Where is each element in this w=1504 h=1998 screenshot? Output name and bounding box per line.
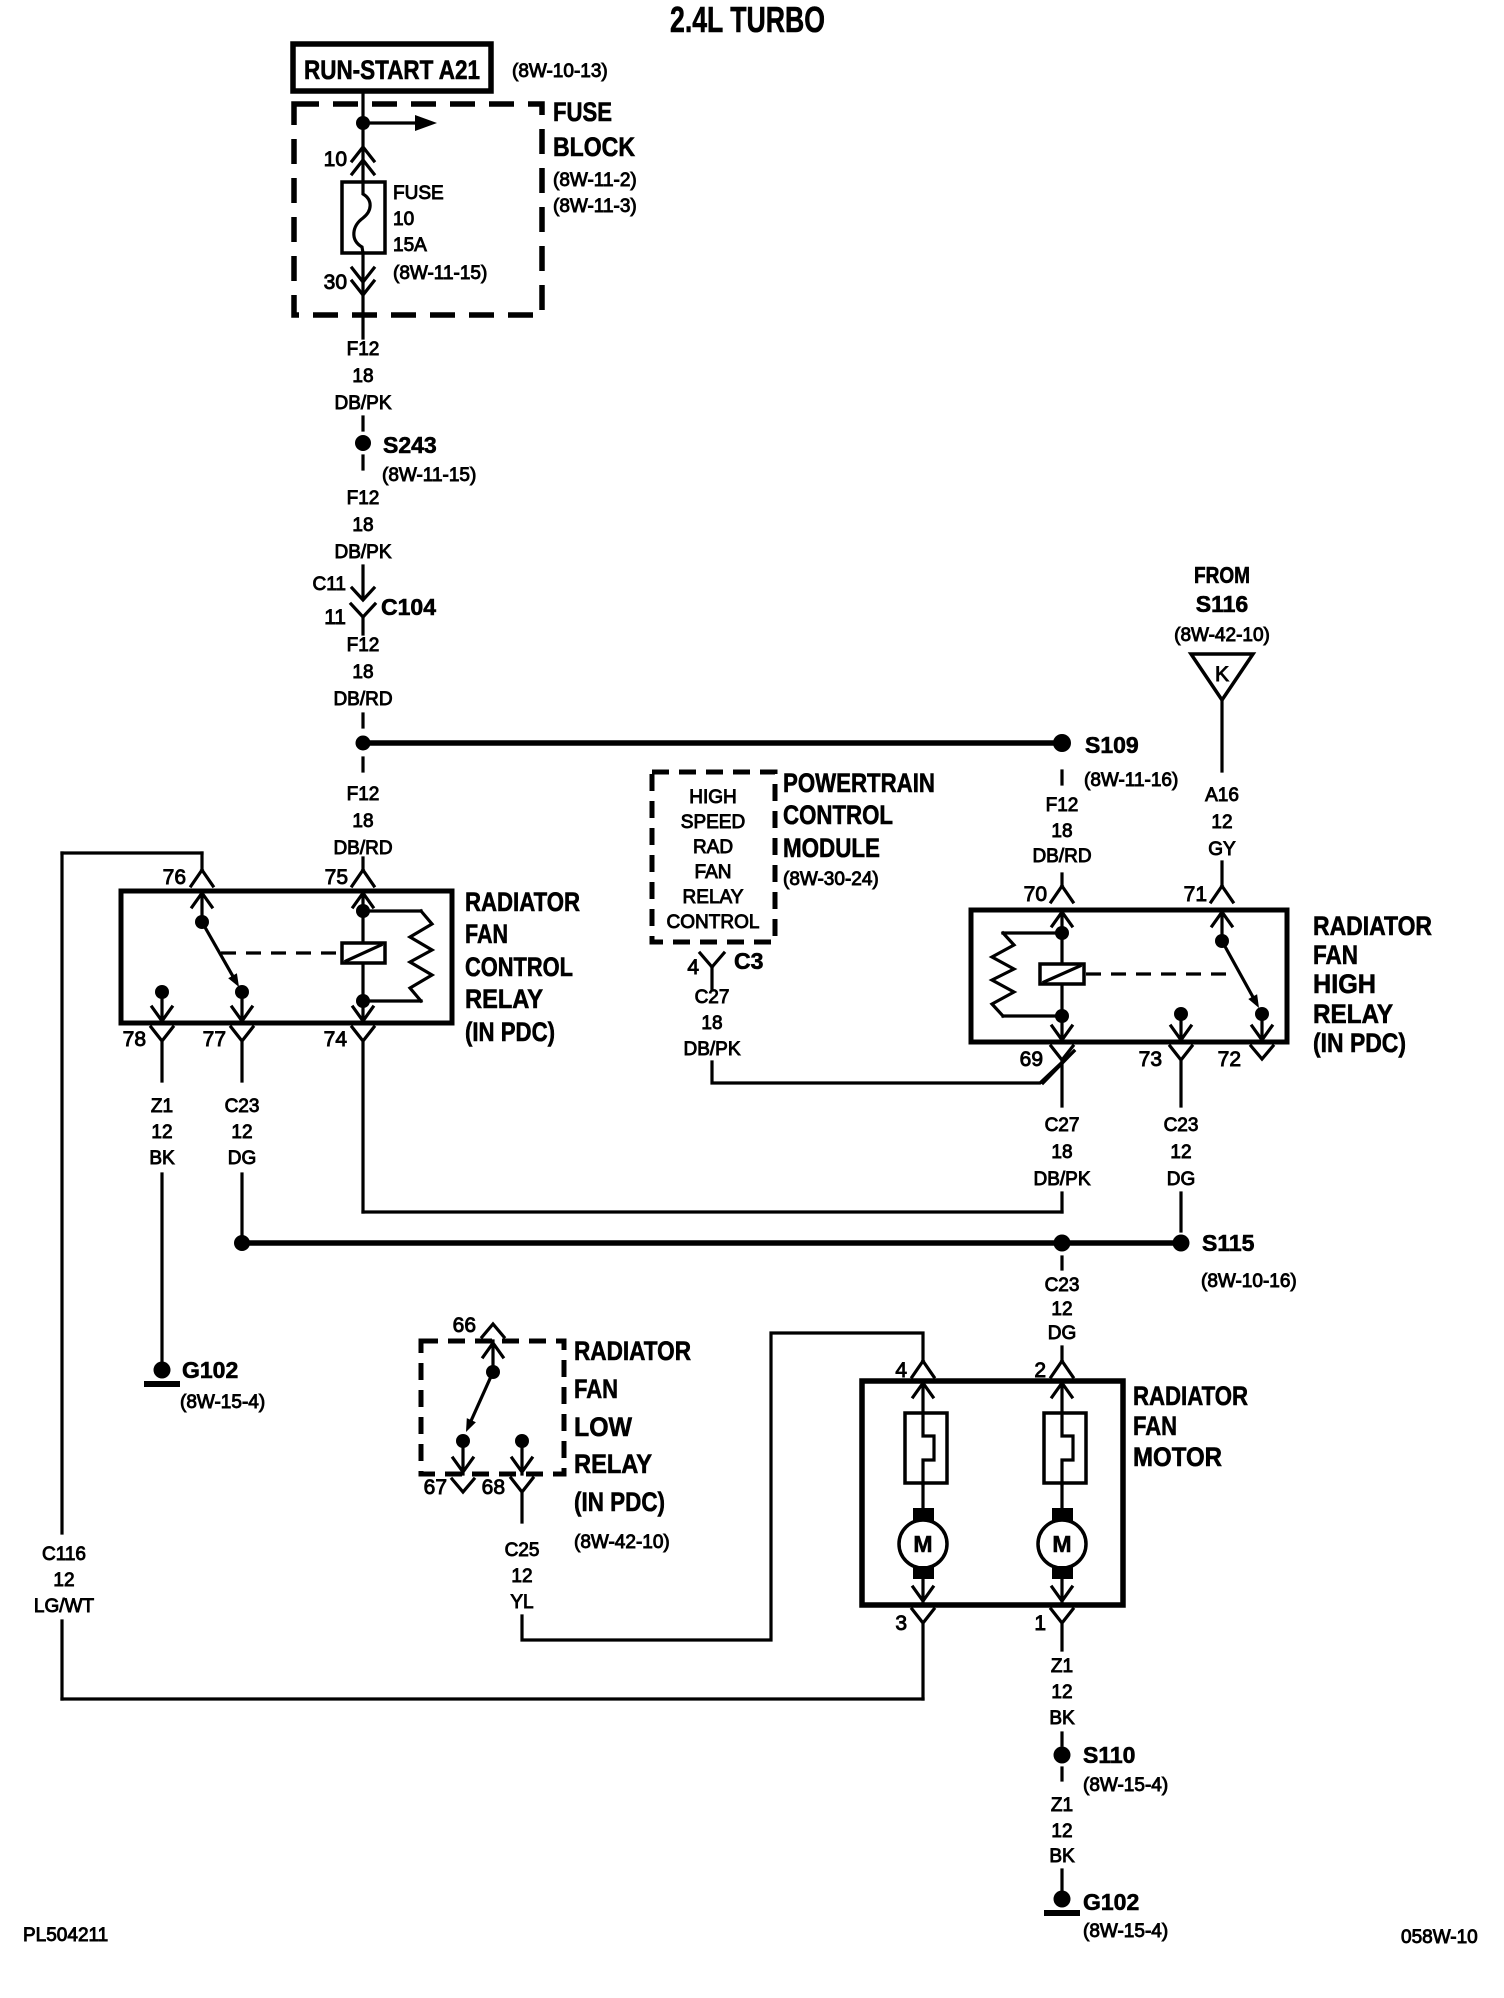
pin 78 connector below box — [151, 1027, 173, 1081]
svg-text:RADIATOR: RADIATOR — [574, 1336, 691, 1366]
bus wire to S109 — [363, 740, 1062, 746]
svg-text:RELAY: RELAY — [465, 984, 543, 1014]
relay switch arm — [202, 922, 233, 976]
svg-text:C11: C11 — [313, 574, 346, 595]
svg-text:78: 78 — [123, 1028, 146, 1051]
motor 1 (left) — [921, 1483, 924, 1508]
svg-text:12: 12 — [53, 1570, 74, 1591]
pin 66 terminal inside — [483, 1341, 503, 1372]
svg-text:(8W-15-4): (8W-15-4) — [180, 1392, 265, 1413]
svg-text:G102: G102 — [1083, 1889, 1139, 1915]
svg-text:12: 12 — [1051, 1299, 1072, 1320]
svg-text:MODULE: MODULE — [783, 833, 880, 863]
svg-text:(8W-11-16): (8W-11-16) — [1084, 770, 1178, 791]
wire PCM C27 to pin 69 — [712, 1051, 1074, 1083]
svg-text:DB/RD: DB/RD — [1032, 846, 1091, 867]
ground G102 right — [1054, 1891, 1071, 1908]
svg-text:RELAY: RELAY — [1313, 999, 1393, 1029]
svg-text:12: 12 — [1051, 1821, 1072, 1842]
svg-text:DB/RD: DB/RD — [333, 838, 392, 859]
radiator fan high relay box — [971, 910, 1287, 1042]
svg-text:(8W-11-3): (8W-11-3) — [553, 196, 637, 217]
svg-text:DG: DG — [1167, 1169, 1196, 1190]
svg-text:DB/RD: DB/RD — [333, 689, 392, 710]
svg-text:DG: DG — [1048, 1323, 1077, 1344]
svg-text:1: 1 — [1034, 1612, 1046, 1635]
svg-text:RELAY: RELAY — [683, 887, 744, 908]
pin 77 connector below box — [231, 1027, 253, 1081]
svg-text:10: 10 — [393, 209, 414, 230]
wire K to pin 71 — [1220, 700, 1223, 771]
svg-text:FUSE: FUSE — [553, 97, 612, 127]
svg-text:S109: S109 — [1085, 732, 1139, 758]
svg-text:BK: BK — [149, 1148, 175, 1169]
pin 3 connector below box — [912, 1609, 934, 1699]
relay switch arm — [1222, 941, 1253, 997]
pin 74 connector below box — [352, 1027, 374, 1212]
svg-text:12: 12 — [1211, 812, 1232, 833]
svg-text:C104: C104 — [381, 594, 436, 620]
svg-text:RADIATOR: RADIATOR — [1133, 1381, 1248, 1411]
wire from RUN-START into fuse block — [361, 91, 364, 182]
svg-text:F12: F12 — [347, 635, 380, 656]
svg-text:C23: C23 — [225, 1096, 260, 1117]
svg-text:DG: DG — [228, 1148, 257, 1169]
pin 73 terminal node — [1174, 1007, 1188, 1021]
svg-text:18: 18 — [352, 811, 373, 832]
pin 10 connector chevrons — [352, 147, 374, 174]
svg-text:10: 10 — [324, 148, 347, 171]
svg-text:74: 74 — [324, 1028, 348, 1051]
svg-text:12: 12 — [1051, 1682, 1072, 1703]
wire to G102 right — [1060, 1870, 1063, 1890]
svg-text:058W-10: 058W-10 — [1401, 1927, 1478, 1948]
svg-text:SPEED: SPEED — [681, 812, 745, 833]
pin 78 terminal node — [155, 985, 169, 999]
svg-text:CONTROL: CONTROL — [465, 952, 573, 982]
wire S115 to motor pin 2 — [1060, 1257, 1063, 1269]
svg-text:S110: S110 — [1083, 1742, 1135, 1768]
svg-text:3: 3 — [895, 1612, 907, 1635]
svg-text:(8W-10-16): (8W-10-16) — [1201, 1271, 1297, 1292]
ground G102 left — [154, 1362, 171, 1379]
switch contact node pin 77 — [235, 985, 249, 999]
svg-text:G102: G102 — [182, 1357, 238, 1383]
wire pin69 to pin74 run — [1060, 1193, 1063, 1212]
svg-text:M: M — [913, 1531, 932, 1557]
pin 70 terminal inside — [1052, 910, 1072, 933]
svg-text:18: 18 — [352, 662, 373, 683]
pin 1 connector below box — [1051, 1609, 1073, 1650]
coil suppression resistor — [363, 909, 421, 912]
svg-text:2.4L TURBO: 2.4L TURBO — [670, 0, 825, 40]
svg-text:18: 18 — [352, 515, 373, 536]
svg-text:C3: C3 — [734, 948, 763, 974]
svg-text:(IN PDC): (IN PDC) — [465, 1017, 555, 1047]
svg-text:F12: F12 — [347, 784, 380, 805]
svg-text:FAN: FAN — [1133, 1411, 1177, 1441]
svg-text:(8W-15-4): (8W-15-4) — [1083, 1775, 1168, 1796]
pin 68 terminal node — [515, 1434, 529, 1448]
svg-text:POWERTRAIN: POWERTRAIN — [783, 768, 935, 798]
wire pin73 to S115 — [1179, 1193, 1182, 1231]
splice S110 — [1060, 1733, 1063, 1745]
svg-text:S115: S115 — [1202, 1230, 1255, 1256]
svg-text:(8W-30-24): (8W-30-24) — [783, 869, 879, 890]
thermal limiter left — [905, 1413, 947, 1483]
switch common node — [195, 915, 209, 929]
pin 2 connector — [1051, 1347, 1073, 1377]
svg-text:FROM: FROM — [1194, 562, 1250, 588]
bottom wire rail to motor pin 3 — [62, 1697, 923, 1700]
svg-text:GY: GY — [1208, 839, 1236, 860]
relay switch arm — [471, 1372, 493, 1420]
radiator fan control relay box — [121, 891, 452, 1023]
pin 71 terminal inside — [1212, 910, 1232, 941]
svg-text:4: 4 — [687, 956, 699, 979]
coil bottom node — [1055, 1009, 1069, 1023]
svg-text:C27: C27 — [1045, 1115, 1080, 1136]
svg-text:C23: C23 — [1164, 1115, 1199, 1136]
svg-text:(8W-11-15): (8W-11-15) — [393, 263, 487, 284]
coil suppression resistor — [1003, 931, 1062, 934]
wire pin68 to motor pin 4 — [522, 1333, 923, 1640]
pin 73 connector below box — [1170, 1046, 1192, 1106]
svg-text:67: 67 — [424, 1476, 447, 1499]
pin 72 connector below box — [1251, 1046, 1273, 1059]
power source box RUN-START A21 — [293, 44, 491, 91]
fuse block dashed box — [294, 104, 542, 315]
svg-text:(8W-42-10): (8W-42-10) — [574, 1532, 670, 1553]
svg-text:(8W-15-4): (8W-15-4) — [1083, 1921, 1168, 1942]
relay coil — [1060, 933, 1063, 1016]
svg-text:C27: C27 — [695, 987, 730, 1008]
svg-text:F12: F12 — [347, 339, 380, 360]
svg-text:FAN: FAN — [465, 919, 508, 949]
svg-text:S243: S243 — [383, 432, 437, 458]
svg-text:(8W-11-2): (8W-11-2) — [553, 170, 637, 191]
wire from pin 76 to left rail — [62, 851, 202, 854]
svg-text:C116: C116 — [42, 1544, 86, 1565]
svg-text:YL: YL — [510, 1592, 533, 1613]
svg-text:FAN: FAN — [574, 1374, 618, 1404]
pin 4 terminal inside — [913, 1381, 933, 1413]
pin 70 connector — [1051, 874, 1073, 902]
svg-text:76: 76 — [163, 866, 186, 889]
svg-text:12: 12 — [511, 1566, 532, 1587]
pin 68 connector below box — [511, 1478, 533, 1522]
dashed actuator link — [1086, 972, 1226, 975]
svg-text:RAD: RAD — [693, 837, 733, 858]
svg-text:PL504211: PL504211 — [23, 1925, 108, 1946]
svg-text:FUSE: FUSE — [393, 183, 444, 204]
svg-text:LOW: LOW — [574, 1412, 632, 1442]
svg-text:12: 12 — [151, 1122, 172, 1143]
svg-text:LG/WT: LG/WT — [34, 1596, 95, 1617]
svg-text:RUN-START A21: RUN-START A21 — [304, 55, 480, 85]
svg-text:77: 77 — [203, 1028, 226, 1051]
svg-text:HIGH: HIGH — [1313, 969, 1376, 999]
switch common node — [1215, 934, 1229, 948]
svg-text:DB/PK: DB/PK — [1033, 1169, 1090, 1190]
wire below fuse — [361, 253, 364, 338]
svg-text:70: 70 — [1024, 883, 1047, 906]
svg-text:M: M — [1052, 1531, 1071, 1557]
svg-text:HIGH: HIGH — [689, 787, 737, 808]
svg-text:F12: F12 — [347, 488, 380, 509]
fuse 10 15A element — [342, 182, 385, 253]
connector C3 pin 4 — [700, 953, 724, 990]
svg-text:DB/PK: DB/PK — [683, 1039, 740, 1060]
svg-text:DB/PK: DB/PK — [334, 393, 391, 414]
dashed actuator link — [221, 951, 342, 954]
relay coil — [361, 911, 364, 1001]
svg-text:(8W-10-13): (8W-10-13) — [512, 61, 608, 82]
wire pin78 to G102 — [160, 1174, 163, 1362]
svg-text:18: 18 — [701, 1013, 722, 1034]
svg-text:69: 69 — [1020, 1048, 1043, 1071]
switch common node — [486, 1365, 500, 1379]
svg-text:30: 30 — [324, 271, 347, 294]
splice S109 — [1053, 734, 1071, 752]
svg-text:11: 11 — [324, 606, 346, 629]
svg-text:(8W-11-15): (8W-11-15) — [382, 465, 476, 486]
svg-text:MOTOR: MOTOR — [1133, 1442, 1222, 1472]
connector C104 — [361, 566, 364, 598]
pin 67 connector below box — [452, 1479, 474, 1492]
svg-text:15A: 15A — [393, 235, 427, 256]
junction to S109 bus — [361, 714, 364, 727]
svg-text:C25: C25 — [505, 1540, 540, 1561]
pin 66 connector — [482, 1324, 504, 1337]
pin 30 connector chevrons — [352, 268, 374, 295]
splice S115 bus — [242, 1240, 1181, 1246]
svg-text:(IN PDC): (IN PDC) — [1313, 1028, 1406, 1058]
pin 69 connector below box — [1051, 1046, 1073, 1106]
pin 2 terminal inside — [1052, 1381, 1072, 1413]
coil bottom node — [356, 994, 370, 1008]
pin 76 terminal inside — [192, 891, 212, 922]
motor 2 (right) — [1060, 1483, 1063, 1508]
svg-text:BK: BK — [1049, 1846, 1075, 1867]
radiator fan motor box — [862, 1381, 1123, 1605]
svg-text:DB/PK: DB/PK — [334, 542, 391, 563]
svg-text:(8W-42-10): (8W-42-10) — [1174, 625, 1270, 646]
svg-text:18: 18 — [1051, 821, 1072, 842]
svg-text:FAN: FAN — [1313, 940, 1358, 970]
coil top node — [356, 904, 370, 918]
thermal limiter right — [1044, 1413, 1086, 1483]
coil top node — [1055, 926, 1069, 940]
svg-text:K: K — [1215, 663, 1229, 686]
splice S243 — [361, 417, 364, 430]
feed arrow to other circuits — [363, 121, 415, 124]
svg-text:(IN PDC): (IN PDC) — [574, 1487, 665, 1517]
svg-text:18: 18 — [352, 366, 373, 387]
svg-text:68: 68 — [482, 1476, 505, 1499]
svg-text:75: 75 — [325, 866, 348, 889]
svg-text:18: 18 — [1051, 1142, 1072, 1163]
svg-text:12: 12 — [1170, 1142, 1191, 1163]
svg-text:73: 73 — [1139, 1048, 1162, 1071]
pin 75 connector — [352, 858, 374, 886]
svg-text:RADIATOR: RADIATOR — [1313, 911, 1432, 941]
powertrain control module dashed box — [652, 772, 775, 942]
svg-text:CONTROL: CONTROL — [667, 912, 760, 933]
svg-text:RADIATOR: RADIATOR — [465, 887, 580, 917]
wire pin77 to S115 — [240, 1174, 243, 1234]
svg-text:66: 66 — [453, 1314, 476, 1337]
svg-text:71: 71 — [1184, 883, 1207, 906]
svg-text:12: 12 — [231, 1122, 252, 1143]
radiator fan low relay dashed box — [421, 1341, 564, 1474]
svg-text:A16: A16 — [1205, 785, 1239, 806]
switch contact node pin 67 — [456, 1434, 470, 1448]
junction dot in fuse block — [356, 116, 370, 130]
svg-text:Z1: Z1 — [1051, 1656, 1073, 1677]
svg-text:Z1: Z1 — [151, 1096, 173, 1117]
svg-text:BLOCK: BLOCK — [553, 132, 635, 162]
svg-text:72: 72 — [1218, 1048, 1241, 1071]
svg-text:C23: C23 — [1045, 1275, 1080, 1296]
pin 75 terminal inside — [353, 891, 373, 911]
pin 4 connector — [912, 1361, 934, 1377]
svg-text:F12: F12 — [1046, 795, 1079, 816]
pin 76 connector — [191, 853, 213, 886]
switch contact node pin 72 — [1255, 1007, 1269, 1021]
svg-text:Z1: Z1 — [1051, 1795, 1073, 1816]
svg-text:FAN: FAN — [695, 862, 732, 883]
pin 71 connector — [1211, 862, 1233, 902]
off-page connector K — [1191, 654, 1253, 700]
svg-text:RELAY: RELAY — [574, 1449, 652, 1479]
svg-text:BK: BK — [1049, 1708, 1075, 1729]
svg-text:S116: S116 — [1196, 591, 1248, 617]
left rail wire C116 — [60, 853, 63, 1533]
svg-text:CONTROL: CONTROL — [783, 800, 893, 830]
